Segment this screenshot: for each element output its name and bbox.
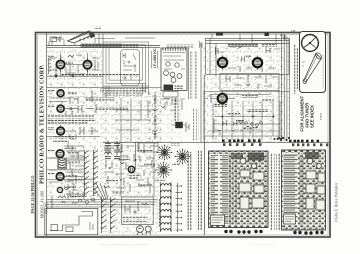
models note text columns xyxy=(193,108,195,141)
svg-text:PHILCO RADIO & TELEVISION CORP: PHILCO RADIO & TELEVISION CORP. xyxy=(38,64,45,184)
terminal strip right of coils xyxy=(176,183,181,232)
tube V2 osc xyxy=(83,58,91,72)
left margin components xyxy=(49,58,52,74)
extra middle labels xyxy=(104,148,114,150)
components in FM lower box xyxy=(226,75,278,89)
rail y76 xyxy=(47,75,103,77)
wires around TC xyxy=(204,90,235,140)
model note vertical text column xyxy=(187,48,189,99)
faint bottom margin smudge xyxy=(100,244,148,246)
part label bar top xyxy=(81,43,123,48)
label bar y73-76 xyxy=(62,73,84,76)
rail y93 xyxy=(47,87,161,89)
small comp below cap xyxy=(186,122,189,132)
wires in box xyxy=(164,60,185,69)
grid cap wires between V1 V2 xyxy=(49,53,100,77)
socket circle 1 xyxy=(164,71,169,76)
tube TB xyxy=(253,56,262,70)
speaker horn xyxy=(68,31,95,43)
fig2 caption vertical xyxy=(293,44,295,94)
part labels in box xyxy=(123,217,148,219)
tube V6 xyxy=(56,150,64,158)
tuning gang trimmer stack xyxy=(105,141,120,159)
wafer switch starburst S2 xyxy=(175,149,190,164)
IF shield can xyxy=(121,50,140,86)
tiny caption lines xyxy=(322,55,324,88)
scattered junction dots middle xyxy=(109,151,155,181)
components below V7 xyxy=(49,158,78,190)
arrow drop with black triangle xyxy=(55,66,58,78)
chassis block2 ticks above rail xyxy=(289,140,319,143)
top rail of chassis diagrams xyxy=(103,141,329,143)
labels under pot xyxy=(129,174,141,176)
loop bottom dashes and arrows xyxy=(104,89,148,92)
svg-text:PAGE 22-56 PHILCO: PAGE 22-56 PHILCO xyxy=(30,176,35,214)
AVC bus lines xyxy=(47,200,157,208)
FM label bar 1 xyxy=(228,44,258,47)
wires above rail xyxy=(52,38,155,46)
chassis block1 top ticks above rail xyxy=(222,139,261,142)
components under socket box xyxy=(164,98,185,106)
tube V8 small xyxy=(57,187,62,192)
wires horn to rail xyxy=(54,34,104,46)
wafer switch starburst S1 xyxy=(157,145,172,160)
pilot lamp 2 xyxy=(145,226,151,235)
rail y136 xyxy=(47,136,100,138)
nested wire loop 1 xyxy=(103,42,149,86)
label rows under shield cans xyxy=(100,88,146,91)
loop aerial dark block xyxy=(164,85,174,91)
socket circle 5 xyxy=(166,62,170,66)
parts in block1 xyxy=(240,158,246,164)
components right of V5 xyxy=(64,127,98,139)
FM lower wire box xyxy=(220,74,279,91)
resistor pairs row xyxy=(214,117,274,136)
tiny labels left margin xyxy=(48,56,55,58)
B+ rail top double xyxy=(47,45,160,47)
speaker driver xyxy=(89,32,96,39)
tube TC xyxy=(218,92,227,104)
nested wire loop 3 xyxy=(109,48,143,81)
coil ladder column xyxy=(161,182,172,232)
socket circle 2 xyxy=(170,72,175,77)
chassis diagram block 2 xyxy=(282,150,326,230)
small wire box top-right of gang xyxy=(139,143,158,152)
diag wires converging xyxy=(94,183,108,200)
circuitry texture washes xyxy=(47,49,103,141)
FM label bar 2 xyxy=(261,44,277,47)
wiring harness lines xyxy=(230,156,236,224)
label above socket box xyxy=(166,45,194,48)
chassis block2 lead ticks below rail xyxy=(292,143,328,146)
junction dots xyxy=(221,116,274,118)
vertical text near if cans xyxy=(174,98,176,121)
page frame outer border xyxy=(36,33,331,238)
components row y96-104 xyxy=(49,90,92,104)
label rows right-middle xyxy=(247,109,268,112)
label right of V7 xyxy=(66,175,77,178)
label right of V3 xyxy=(67,92,77,95)
chassis diagram block 1 xyxy=(209,151,269,228)
chassis1 bottom terminal dots xyxy=(224,230,262,234)
socket circle 4 xyxy=(177,74,182,79)
page frame inner line xyxy=(37,34,328,235)
rails mid-left xyxy=(47,157,84,159)
tube V7 xyxy=(56,173,64,181)
socket circle 3 xyxy=(171,78,176,83)
IF transformer coil stack xyxy=(58,158,67,169)
nested wire loop 2 xyxy=(106,45,146,84)
antenna terminal box xyxy=(161,48,187,97)
tone control wire box xyxy=(122,197,154,225)
osc components row xyxy=(68,55,98,77)
tiny labels at top of rails xyxy=(291,30,296,32)
caution text block 3 rows xyxy=(48,115,95,118)
vertical text right of box xyxy=(158,199,160,227)
parts above output box xyxy=(52,193,95,208)
label right of V6 xyxy=(67,152,79,155)
chassis block1 lead ticks below rail xyxy=(223,143,261,146)
tube TA FM det xyxy=(218,56,227,70)
mid verticals below detector xyxy=(115,98,182,142)
svg-text:I.F.=455 KC.: I.F.=455 KC. xyxy=(153,47,157,68)
small pin circles row xyxy=(240,121,263,127)
tiny bracket text xyxy=(321,113,323,120)
electrolytic cap black xyxy=(175,122,183,128)
small box below xyxy=(163,92,178,98)
wiring V6..V8 to switch xyxy=(64,143,84,197)
wires to top border FM xyxy=(212,34,285,43)
wafer spoke dots xyxy=(155,145,190,179)
tube V3 xyxy=(57,90,64,97)
socket circle 6 xyxy=(175,63,179,67)
pointer cone xyxy=(304,54,322,83)
small terminal dots left of block2 ticks xyxy=(274,138,283,141)
outer wire loop FM xyxy=(206,38,290,74)
rail lower line xyxy=(47,46,160,48)
band switch contact columns xyxy=(85,150,99,196)
terminal ladder strip 2 xyxy=(283,153,298,225)
components in shield xyxy=(123,53,137,80)
osc coil label xyxy=(65,62,73,65)
tube V1 1st det xyxy=(56,58,64,72)
label row under tubes xyxy=(62,73,84,76)
label above TB xyxy=(246,55,252,57)
output transformer box xyxy=(45,209,98,235)
vertical wire x204 with arrows xyxy=(201,42,204,142)
small components FM xyxy=(215,46,280,72)
FM box bottom labels xyxy=(242,95,258,98)
wire grid mid-right xyxy=(204,92,289,141)
chassis2 bottom terminal dots xyxy=(293,231,323,235)
dark cluster xyxy=(243,126,253,131)
label rows under V5 xyxy=(53,136,74,139)
right vertical rails xyxy=(252,34,290,140)
note text right of block1 xyxy=(271,153,274,230)
terminal ladder strip xyxy=(210,154,229,225)
corner junction boxes xyxy=(49,36,64,46)
fig1 caption vertical text xyxy=(187,152,190,230)
label on border xyxy=(216,32,223,35)
tube V4 xyxy=(57,105,64,112)
smudge above border xyxy=(94,27,101,30)
labels lower-left column xyxy=(64,148,76,150)
switch ladder bottom xyxy=(102,197,116,233)
scan noise inside frame xyxy=(37,34,329,236)
middle misc components xyxy=(104,142,158,197)
vertical part chain left of note column xyxy=(153,92,158,140)
wafer switch starburst S3 xyxy=(156,162,172,178)
svg-text:SEE INDEX: SEE INDEX xyxy=(310,105,315,128)
title strip divider wire xyxy=(46,33,48,236)
components right of V4 xyxy=(64,104,96,115)
terminal dots right rail bottom xyxy=(278,137,290,141)
dark blob pair on border xyxy=(265,33,269,36)
svg-text:41-285: 41-285 xyxy=(43,202,48,214)
tube V5 xyxy=(57,125,65,135)
volume control tube xyxy=(128,166,134,172)
labels near wafers xyxy=(171,144,180,146)
dial face xyxy=(302,35,319,52)
pilot lamp 1 xyxy=(137,226,144,235)
